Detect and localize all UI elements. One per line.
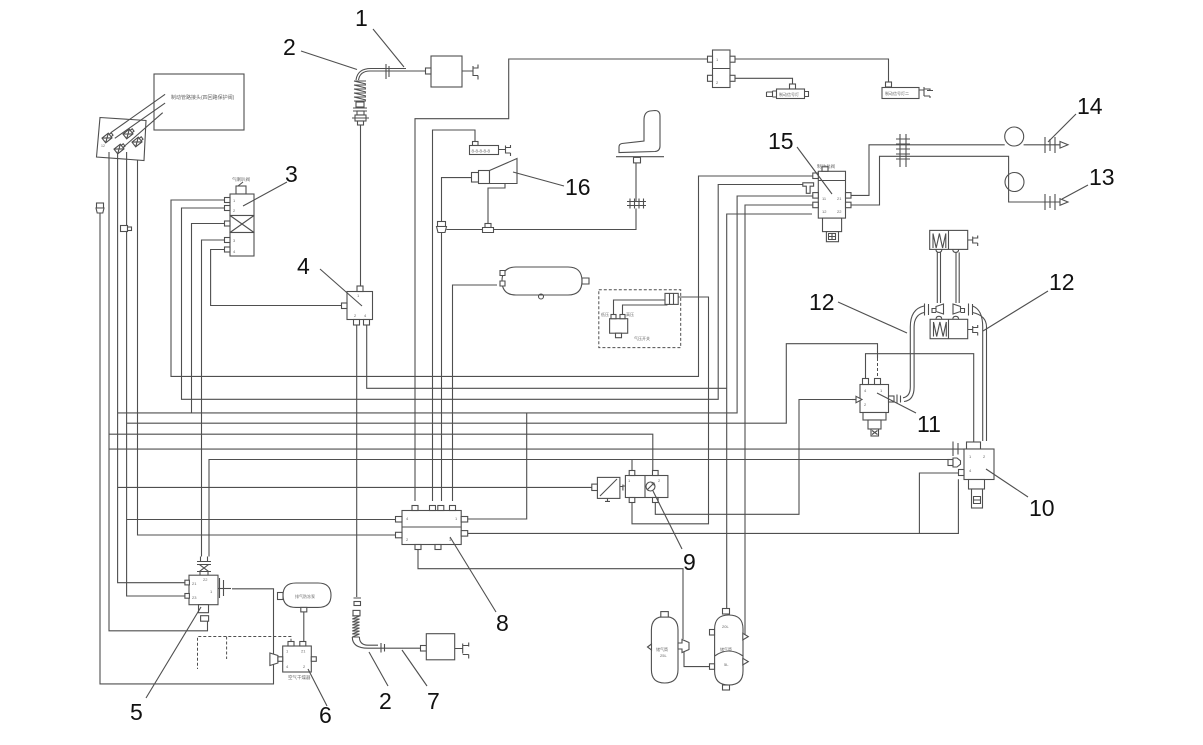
wire hose1 down to valve 4 top bbox=[360, 124, 362, 287]
svg-text:11: 11 bbox=[917, 411, 941, 437]
air dryer 6 bbox=[270, 642, 316, 682]
wire valve3 portC to valve15 port2 bbox=[192, 224, 226, 413]
horizontal air reservoir (capsule) bbox=[500, 267, 589, 299]
svg-text:13: 13 bbox=[1089, 164, 1115, 190]
wire fan line to pressure switch column bbox=[127, 344, 878, 424]
svg-text:储气筒: 储气筒 bbox=[656, 646, 668, 652]
hose from right fitting to valve10 (double line) bbox=[973, 306, 987, 441]
svg-text:制动管路接头(四回路保护阀): 制动管路接头(四回路保护阀) bbox=[171, 94, 235, 101]
svg-text:5L: 5L bbox=[724, 662, 729, 667]
svg-text:12: 12 bbox=[809, 289, 835, 315]
wire second bus to wiper device and manifold port2 bbox=[433, 130, 476, 501]
left air tank bbox=[648, 612, 690, 683]
windscreen device (ribbed) bbox=[470, 142, 511, 157]
svg-text:12: 12 bbox=[1049, 269, 1075, 295]
wire top bus from coil hose to box 7 assembly bbox=[405, 70, 426, 72]
wire long cross line y459 from valve5 column to valve10 plug bbox=[209, 460, 948, 557]
note text box (top left) bbox=[154, 74, 244, 130]
leader 2 bottom bbox=[369, 652, 388, 686]
svg-text:21: 21 bbox=[837, 196, 842, 201]
valve 4 (quick release) bbox=[342, 286, 373, 325]
leader 6 bbox=[308, 669, 327, 706]
svg-text:制动信号灯: 制动信号灯 bbox=[779, 91, 799, 97]
relay valve 11 bbox=[852, 379, 901, 437]
wire top main bus to two-section valve U2 bbox=[415, 59, 709, 501]
hose coil 14 bbox=[1005, 127, 1024, 146]
leader 10 bbox=[986, 469, 1028, 497]
funnel fitting left bbox=[925, 304, 944, 316]
coupler 14 bbox=[1043, 137, 1068, 153]
leader 13 bbox=[1062, 185, 1088, 199]
funnel fitting right bbox=[953, 304, 973, 316]
wire valve10 left-lower port to trunk bbox=[919, 473, 958, 533]
upper brake chamber 12 bbox=[930, 230, 978, 252]
svg-text:7: 7 bbox=[427, 688, 440, 714]
leader 14 bbox=[1048, 114, 1076, 142]
svg-text:14: 14 bbox=[1077, 93, 1103, 119]
hose coil 13 bbox=[1005, 173, 1024, 192]
svg-text:10: 10 bbox=[1029, 495, 1055, 521]
two-section valve U2 (top right) bbox=[708, 50, 736, 88]
svg-text:15: 15 bbox=[768, 128, 794, 154]
distribution manifold 8 bbox=[396, 506, 468, 550]
wire main trunk manifold right-lower to valve10 bbox=[461, 479, 958, 533]
svg-text:21: 21 bbox=[301, 649, 306, 654]
svg-text:2: 2 bbox=[283, 34, 296, 60]
wire coil13 outlet to coupler bbox=[1009, 197, 1043, 203]
lower brake chamber 12 bbox=[930, 316, 978, 338]
wire horn to plug column bbox=[442, 178, 474, 222]
relay emergency valve 10 bbox=[948, 442, 994, 509]
bulkhead coupling on line to 14 bbox=[896, 134, 910, 167]
wire horn line from plug to tee and seat column bbox=[447, 209, 637, 230]
wire U2 right port to right pressure cylinder bbox=[730, 59, 889, 83]
tee fitting on horn line bbox=[483, 224, 494, 233]
svg-text:气喇叭阀: 气喇叭阀 bbox=[232, 176, 250, 183]
wire valve9 top port2 riser to fan line bbox=[109, 434, 653, 471]
svg-text:8-8-8-8-8: 8-8-8-8-8 bbox=[472, 149, 491, 154]
wire hose2 elbow to filter box 7 bbox=[386, 647, 420, 649]
coiled hose 2 (bottom) bbox=[352, 598, 386, 653]
svg-text:低压: 低压 bbox=[601, 311, 609, 317]
svg-text:25L: 25L bbox=[660, 653, 667, 658]
svg-text:22: 22 bbox=[203, 577, 208, 582]
svg-text:20L: 20L bbox=[722, 624, 729, 629]
leader 2 bbox=[301, 51, 357, 70]
side plug on far-left line bbox=[96, 203, 104, 213]
leader lines from connectors to note box bbox=[111, 94, 165, 147]
wire tank elbow to right tank lower-left port bbox=[684, 652, 712, 667]
wire valve4 bottom-left down to coiled hose 2 bbox=[356, 325, 358, 597]
svg-text:储气筒: 储气筒 bbox=[720, 646, 732, 652]
wire bottom drain line from fan to valve5 drain bbox=[109, 152, 208, 631]
leader 16 bbox=[513, 172, 564, 186]
wire valve3 portB to valve15 Y-fitting bbox=[182, 185, 803, 400]
wire fan line to valve5 left port1 bbox=[118, 152, 185, 583]
svg-text:空气干燥器: 空气干燥器 bbox=[288, 674, 311, 681]
wire tee stub up to horn bottom bbox=[488, 184, 505, 226]
wire oval device down to dryer 6 bbox=[303, 612, 305, 646]
elbow plug on manifold riser (horn tee line) bbox=[437, 222, 447, 233]
wire U2 lower right port to left pressure cylinder bbox=[730, 78, 793, 84]
wire dashed vent from dryer 6 bbox=[198, 637, 292, 670]
svg-text:3: 3 bbox=[285, 161, 298, 187]
svg-text:排气防冻泵: 排气防冻泵 bbox=[295, 593, 315, 599]
air filter box 1 bbox=[426, 56, 479, 87]
svg-text:4: 4 bbox=[297, 253, 310, 279]
wire valve4 bottom-right to valve15 port3 bbox=[367, 325, 727, 388]
horn 16 bbox=[472, 159, 518, 184]
leader 11 bbox=[877, 393, 916, 413]
coupler tick on hose 1 line bbox=[386, 64, 389, 79]
connector fan box (top left) bbox=[97, 118, 147, 161]
leader 1 bbox=[373, 29, 404, 67]
leader 7 bbox=[402, 650, 427, 686]
right air tank bbox=[710, 609, 749, 691]
leader 3 bbox=[243, 182, 287, 206]
wire jog feeder from fan line to y459 bbox=[109, 448, 967, 450]
four circuit protection valve 5 bbox=[185, 557, 231, 622]
wire seat column bbox=[635, 163, 637, 201]
side plug on fan line x137.5 bbox=[121, 226, 132, 232]
wire dashed drop into valve11 top right bbox=[877, 358, 879, 377]
svg-text:1: 1 bbox=[355, 5, 368, 31]
wire valve9 bottom2 to valve11 left riser bbox=[655, 400, 852, 515]
double check valve 9 with gauge bbox=[592, 471, 668, 503]
svg-text:16: 16 bbox=[565, 174, 591, 200]
leader 12 left bbox=[838, 302, 907, 333]
coiled hose 2 (top) bbox=[352, 69, 406, 126]
valve 3 (hand control valve) bbox=[225, 176, 255, 256]
wire middle capsule tank to manifold port4 bbox=[453, 285, 498, 501]
wire valve3 portD down to valve5 top fitting bbox=[202, 240, 226, 557]
svg-text:12: 12 bbox=[101, 144, 105, 148]
wire plug column down to manifold port3 bbox=[441, 233, 443, 502]
pressure switch assembly (dashed box) bbox=[599, 290, 681, 348]
svg-text:9: 9 bbox=[683, 549, 696, 575]
wire coil14 outlet to coupler bbox=[1024, 144, 1043, 146]
wire manifold bottom1 to left air tank bbox=[418, 549, 683, 639]
brake master valve 15 bbox=[803, 163, 851, 242]
seat symbol bbox=[616, 111, 664, 163]
leader 8 bbox=[450, 537, 496, 612]
wire pressure switch column down to valve9 bottom1 bbox=[632, 297, 709, 524]
wire y459 drop to valve9 top port1 bbox=[631, 460, 633, 472]
wire big U valve5 right to fan plug line bbox=[100, 212, 274, 684]
bulkhead coupling on seat column bbox=[627, 199, 646, 209]
wire valve15 right port2 toward coupler 13 bbox=[851, 156, 1009, 205]
wire valve3 portE to valve4 left port bbox=[211, 250, 342, 306]
coupler 13 bbox=[1043, 194, 1068, 210]
leader 12 right bbox=[983, 291, 1048, 331]
wire fan line to manifold left-lower bbox=[138, 160, 396, 535]
wire fan line to gauge plug of valve9 bbox=[118, 486, 592, 488]
wire fan line to manifold left-upper then valve5 left2 bbox=[127, 519, 396, 521]
air filter box 7 bbox=[421, 634, 469, 660]
wire fan line to loop over valve11 bbox=[118, 196, 813, 413]
svg-text:6: 6 bbox=[319, 702, 332, 728]
svg-text:制动信号灯二: 制动信号灯二 bbox=[885, 90, 909, 96]
svg-text:23: 23 bbox=[192, 595, 197, 600]
svg-text:22: 22 bbox=[837, 209, 842, 214]
left pressure signal cylinder bbox=[767, 84, 809, 99]
leader 9 bbox=[653, 491, 682, 549]
wire fan line continue to valve5 left port2 bbox=[127, 152, 185, 596]
svg-text:2: 2 bbox=[379, 688, 392, 714]
pipes from upper chamber down to fittings bbox=[937, 252, 959, 303]
leader 5 bbox=[146, 607, 201, 698]
svg-text:气压开关: 气压开关 bbox=[634, 335, 650, 341]
svg-text:高压: 高压 bbox=[626, 311, 634, 317]
svg-text:8: 8 bbox=[496, 610, 509, 636]
svg-text:5: 5 bbox=[130, 699, 143, 725]
wire valve3 portA to valve15 port1 bbox=[171, 176, 813, 376]
right pressure signal cylinder bbox=[882, 82, 933, 99]
svg-text:21: 21 bbox=[192, 581, 197, 586]
svg-text:12: 12 bbox=[822, 209, 827, 214]
wire right tank riser to valve15 bottom port bbox=[727, 214, 812, 612]
wire valve11 top port1 over to valve10 top bbox=[866, 354, 974, 442]
wire valve15 right port1 to coupler 14 bbox=[851, 145, 1005, 196]
leader 15 bbox=[797, 147, 832, 194]
wire manifold right-upper riser to loop bbox=[461, 413, 527, 519]
leader 4 bbox=[320, 269, 362, 306]
hose from left fitting to valve11 (double line) bbox=[903, 306, 924, 402]
wire valve15 port3 down to right tank plug feeder bbox=[745, 205, 813, 636]
anti freeze oval device bbox=[278, 583, 332, 612]
